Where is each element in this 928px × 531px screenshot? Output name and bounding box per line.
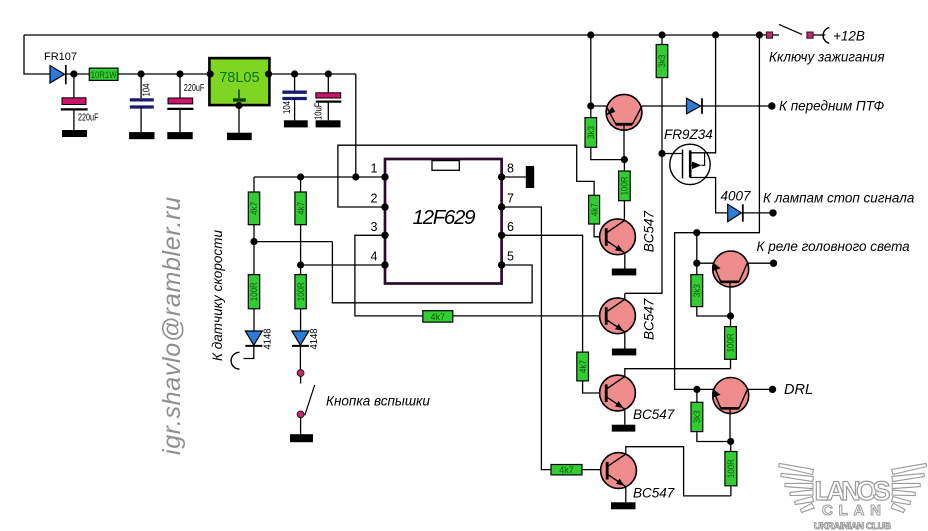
svg-text:220uF: 220uF bbox=[78, 112, 99, 124]
transistor Q4 BC547 bbox=[600, 375, 675, 422]
svg-text:5: 5 bbox=[507, 250, 514, 264]
transistor Q5 BC547 bbox=[601, 453, 675, 501]
svg-text:+12В: +12В bbox=[833, 29, 865, 44]
pin 8 bbox=[498, 173, 505, 180]
ground below 78L05 bbox=[227, 133, 252, 140]
wire left drop to diode anode bbox=[24, 35, 50, 74]
wire Q6 collector to relay output bbox=[747, 262, 771, 264]
diode to front fog lamps bbox=[687, 98, 771, 114]
transistor Q2 BC547 bbox=[600, 211, 657, 255]
wire 4k7 to Q4 base bbox=[583, 381, 607, 393]
svg-text:3k3: 3k3 bbox=[657, 55, 667, 68]
node junction at C3 bbox=[176, 70, 183, 77]
capacitor C1 220uF bbox=[61, 74, 99, 130]
node junction at C5 bbox=[325, 70, 332, 77]
wire 4k7 to Q5 base bbox=[582, 469, 607, 471]
svg-text:К реле головного света: К реле головного света bbox=[757, 239, 911, 254]
ground below C4 bbox=[284, 120, 308, 127]
node flash chain top bbox=[297, 173, 304, 180]
svg-text:К лампам стоп сигнала: К лампам стоп сигнала bbox=[763, 191, 915, 206]
svg-text:8: 8 bbox=[507, 162, 514, 176]
svg-text:6: 6 bbox=[507, 220, 514, 234]
node Q7 emitter junction bbox=[693, 386, 700, 393]
node Q6 emitter junction bbox=[693, 260, 700, 267]
svg-text:104: 104 bbox=[282, 101, 293, 114]
capacitor C2 104 bbox=[130, 74, 154, 132]
node junction at C2 bbox=[138, 70, 145, 77]
wire Q5 emitter to ground bbox=[625, 487, 627, 503]
svg-text:BC547: BC547 bbox=[642, 298, 657, 340]
wire pin 8 to bar bbox=[502, 176, 526, 178]
wire VDD to sensor chain top bbox=[253, 177, 255, 192]
svg-text:4k7: 4k7 bbox=[296, 202, 306, 215]
wire gate column down to Q3 collector bbox=[625, 78, 662, 294]
svg-text:4007: 4007 bbox=[720, 189, 751, 204]
svg-text:3k3: 3k3 bbox=[692, 410, 702, 423]
svg-text:104: 104 bbox=[141, 83, 152, 96]
pin 7 bbox=[498, 203, 505, 210]
svg-text:4k7: 4k7 bbox=[249, 202, 259, 215]
ground below C3 bbox=[167, 132, 192, 139]
wire Q3 collector up bbox=[624, 293, 626, 299]
wire pin 2 route above chip bbox=[338, 145, 594, 207]
node rail junction MOSFET drain bbox=[712, 31, 719, 38]
node Q6 emitter feed junction bbox=[693, 229, 700, 236]
node Q7 base junction bbox=[727, 438, 734, 445]
svg-text:BC547: BC547 bbox=[633, 407, 675, 422]
wire pin 7 route down bbox=[502, 207, 551, 470]
node sensor chain junction bbox=[250, 238, 257, 245]
svg-text:BC547: BC547 bbox=[642, 211, 657, 253]
node Q1 emitter junction bbox=[587, 102, 594, 109]
node FR9Z34 gate junction bbox=[658, 150, 665, 157]
svg-text:78L05: 78L05 bbox=[219, 70, 259, 86]
resistor 4k7 flash pullup bbox=[295, 177, 306, 225]
resistor 3k3 Q6 base-emitter bbox=[691, 263, 731, 316]
svg-text:UKRAINIAN CLUB: UKRAINIAN CLUB bbox=[814, 521, 891, 531]
svg-text:Кнопка вспышки: Кнопка вспышки bbox=[326, 394, 430, 409]
pin 6 bbox=[498, 232, 505, 239]
node flash chain junction bbox=[297, 261, 304, 268]
wire feed to Q6 emitter bbox=[697, 233, 713, 264]
node regulator output pin bbox=[265, 70, 272, 77]
svg-text:4k7: 4k7 bbox=[431, 312, 446, 322]
node regulator input pin bbox=[207, 70, 214, 77]
svg-text:1: 1 bbox=[371, 162, 378, 176]
wire 4k7 to Q3 base bbox=[453, 315, 607, 317]
node regulator ground pin bbox=[235, 102, 242, 109]
node DRL output terminal bbox=[769, 386, 776, 393]
node Q1 base junction bbox=[621, 156, 628, 163]
wire 5V rail segment diode to regulator bbox=[66, 73, 210, 75]
svg-text:К датчику скорости: К датчику скорости bbox=[210, 230, 225, 361]
wire VDD to pin 1 bbox=[254, 176, 385, 178]
ground below Q4 bbox=[612, 425, 636, 432]
wire flash chain bbox=[300, 225, 302, 275]
wire Q3 emitter to ground bbox=[624, 332, 626, 349]
diode 4148 flash bbox=[292, 309, 320, 350]
svg-text:3k3: 3k3 bbox=[692, 284, 702, 297]
diode 4148 sensor bbox=[245, 309, 273, 350]
wire Q4 collector to 100R bbox=[625, 369, 731, 377]
node front fog output terminal bbox=[768, 102, 775, 109]
svg-text:FR9Z34: FR9Z34 bbox=[664, 127, 713, 142]
svg-text:DRL: DRL bbox=[784, 382, 813, 398]
wire 5V drop to pin1 node bbox=[355, 74, 357, 177]
resistor 4k7 sensor pullup bbox=[248, 192, 259, 225]
svg-text:4148: 4148 bbox=[262, 328, 273, 349]
transistor Q6 PNP relay driver bbox=[712, 251, 749, 316]
pin 1 bbox=[381, 173, 388, 180]
ground below C5 bbox=[316, 120, 341, 127]
resistor 4k7 base of Q2 bbox=[589, 195, 600, 224]
transistor Q1 PNP bbox=[606, 94, 642, 159]
voltage regulator U2 78L05 bbox=[209, 58, 269, 105]
wire Q5 collector route to 100R bbox=[626, 447, 731, 496]
svg-text:igr.shavlo@rambler.ru: igr.shavlo@rambler.ru bbox=[158, 197, 186, 455]
svg-text:4k7: 4k7 bbox=[589, 203, 599, 216]
ground below C1 bbox=[62, 130, 87, 137]
svg-text:FR107: FR107 bbox=[44, 51, 77, 63]
node junction after FR107 bbox=[70, 70, 77, 77]
node Q6 base junction bbox=[727, 312, 734, 319]
node junction at C4 bbox=[291, 70, 298, 77]
resistor 3k3 Q1 base-emitter bbox=[585, 106, 624, 160]
ground below C2 bbox=[129, 132, 154, 139]
ground bar at pin 8 bbox=[526, 166, 534, 188]
capacitor C3 220uF bbox=[167, 74, 204, 132]
diode 4007 stop signal bbox=[720, 189, 770, 222]
connector to speed sensor bbox=[231, 347, 254, 369]
node rail junction PNP feed column bbox=[756, 31, 763, 38]
svg-text:100R: 100R bbox=[726, 333, 736, 352]
wire 4k7 to Q2 base bbox=[594, 224, 606, 237]
resistor 100R Q7 base bbox=[725, 442, 737, 496]
ground below Q2 bbox=[612, 269, 637, 276]
svg-text:4k7: 4k7 bbox=[578, 360, 588, 373]
switch ignition key bbox=[766, 24, 829, 43]
ground below Q5 bbox=[611, 502, 636, 509]
resistor 4k7 horizontal pin3 bbox=[423, 311, 453, 322]
pin 5 bbox=[498, 261, 505, 268]
resistor 3k3 gate pullup bbox=[656, 35, 668, 78]
wire pin 4 to flash chain bbox=[301, 264, 385, 266]
svg-text:100R: 100R bbox=[620, 176, 630, 195]
transistor Q7 PNP DRL driver bbox=[697, 378, 749, 442]
pin 2 bbox=[381, 203, 388, 210]
node rail junction FR gate column bbox=[658, 31, 665, 38]
transistor Q3 BC547 bbox=[600, 298, 657, 340]
svg-text:3k3: 3k3 bbox=[586, 126, 596, 139]
svg-text:К передним ПТФ: К передним ПТФ bbox=[779, 99, 884, 114]
svg-text:100R: 100R bbox=[249, 282, 259, 301]
svg-text:12F629: 12F629 bbox=[413, 206, 476, 229]
diode FR107 bbox=[44, 51, 77, 84]
wire pin 3 route below chip bbox=[355, 235, 423, 316]
wire regulator ground bbox=[238, 106, 240, 133]
resistor 10R1W bbox=[89, 68, 118, 80]
resistor 100R Q6 base bbox=[725, 316, 737, 369]
svg-text:2: 2 bbox=[371, 192, 378, 206]
pin 4 bbox=[381, 261, 388, 268]
wire rail to Q1 emitter bbox=[591, 35, 607, 106]
svg-text:Кключу зажигания: Кключу зажигания bbox=[769, 50, 885, 65]
resistor 100R flash bbox=[295, 275, 306, 309]
pin 3 bbox=[381, 232, 388, 239]
node pin1 feed junction bbox=[352, 173, 359, 180]
svg-text:100R: 100R bbox=[726, 459, 736, 478]
wire regulator output to corner bbox=[269, 73, 355, 75]
resistor 100R Q1 base bbox=[619, 160, 631, 221]
wire Q4 emitter to ground bbox=[624, 409, 626, 425]
svg-text:10R1W: 10R1W bbox=[91, 70, 117, 80]
svg-text:10uF: 10uF bbox=[313, 103, 324, 121]
wire Q2 emitter to ground bbox=[624, 253, 626, 269]
resistor 3k3 Q7 base-emitter bbox=[691, 389, 731, 441]
ground below flash switch bbox=[290, 434, 313, 442]
svg-text:3: 3 bbox=[371, 220, 378, 234]
svg-text:100R: 100R bbox=[296, 282, 306, 301]
svg-text:BC547: BC547 bbox=[633, 486, 675, 501]
wire +12V top rail bbox=[24, 34, 766, 36]
wire Q7 collector to DRL output bbox=[747, 388, 770, 390]
wire PNP emitter feed bbox=[675, 35, 760, 389]
resistor 100R sensor bbox=[248, 275, 259, 309]
capacitor C4 104 bbox=[282, 74, 307, 120]
wire sensor junction to pin5 route bbox=[254, 225, 332, 275]
svg-text:4148: 4148 bbox=[309, 328, 320, 349]
node rail junction Q1 emitter column bbox=[587, 31, 594, 38]
svg-text:4: 4 bbox=[371, 250, 378, 264]
svg-text:220uF: 220uF bbox=[184, 82, 205, 94]
logo LANOS CLAN bbox=[779, 463, 927, 512]
node relay output terminal bbox=[770, 260, 777, 267]
IC U1 12F629 bbox=[385, 159, 502, 284]
resistor 4k7 horizontal base of Q5 bbox=[551, 465, 582, 476]
resistor 4k7 base of Q4 bbox=[577, 352, 589, 381]
switch flash button bbox=[297, 347, 315, 434]
wire pin 5 route to sensor chain bbox=[332, 242, 532, 303]
svg-text:4k7: 4k7 bbox=[559, 465, 574, 475]
node stop signal output terminal bbox=[769, 209, 776, 216]
MOSFET FR9Z34 bbox=[662, 35, 728, 213]
ground below Q3 bbox=[612, 349, 636, 356]
svg-text:7: 7 bbox=[507, 192, 514, 206]
capacitor C5 10uF bbox=[313, 74, 341, 120]
wire pin 6 route down bbox=[502, 235, 583, 352]
wire Q1 collector to diode bbox=[642, 105, 687, 107]
